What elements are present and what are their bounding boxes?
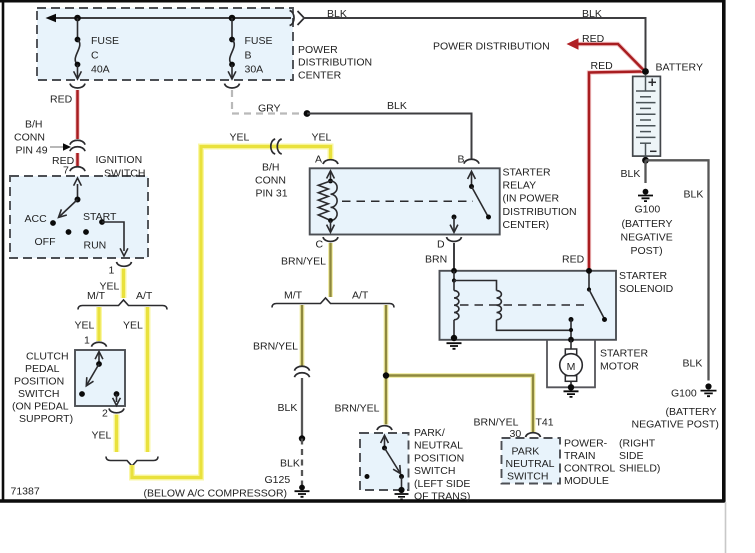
wire YEL merge to starter relay pin A [132,147,331,478]
svg-text:BRN/YEL: BRN/YEL [281,256,326,268]
svg-text:(RIGHT: (RIGHT [619,438,656,450]
svg-text:GRY: GRY [258,103,281,115]
wire YEL ignition to split [121,269,127,299]
connector relay pin D [447,237,462,241]
wire BRN relay pin D to solenoid [453,243,455,270]
svg-text:STARTER: STARTER [600,348,648,360]
svg-text:SWITCH: SWITCH [104,167,145,179]
svg-text:POST): POST) [631,245,663,257]
starter solenoid box [440,271,617,340]
svg-text:BRN: BRN [425,254,447,266]
splice brace M/T A/T (brn/yel) [272,298,394,308]
svg-text:TRAIN: TRAIN [564,450,596,462]
svg-text:BLK: BLK [278,402,298,414]
svg-text:(LEFT SIDE: (LEFT SIDE [414,478,470,490]
junction node at fuse C [74,15,81,22]
connector B/H CONN PIN 49 [50,140,85,151]
svg-text:7: 7 [63,165,69,177]
connector clutch switch pin 1 [92,342,107,346]
svg-text:DISTRIBUTION: DISTRIBUTION [298,57,372,69]
svg-text:POSITION: POSITION [14,376,64,388]
svg-text:B/H: B/H [25,119,43,131]
svg-text:OFF: OFF [35,236,56,248]
svg-text:71387: 71387 [11,486,40,498]
wire BRN/YEL A/T branch [384,305,389,425]
connector relay pin A [323,160,338,164]
connector ignition pin 7 [70,167,85,171]
svg-text:BLK: BLK [683,358,703,370]
svg-text:CONTROL: CONTROL [564,463,615,475]
starter relay box [310,168,500,234]
wire BLK battery to right side ground [646,160,709,380]
svg-text:M/T: M/T [284,290,303,302]
svg-text:CENTER: CENTER [298,69,342,81]
node battery negative [642,157,649,164]
svg-text:2: 2 [102,408,108,420]
svg-text:SWITCH: SWITCH [414,465,455,477]
svg-text:SOLENOID: SOLENOID [619,283,674,295]
svg-text:CLUTCH: CLUTCH [26,351,69,363]
ignition switch box [10,176,148,258]
junction node [299,435,305,441]
ground G100 right side [701,383,717,396]
wire BRN/YEL M/T branch [300,305,305,366]
svg-text:NEUTRAL: NEUTRAL [506,458,555,470]
svg-text:CONN: CONN [14,132,45,144]
wire BLK dashed to G125 [301,439,303,486]
svg-text:CONN: CONN [255,175,286,187]
svg-text:(BATTERY: (BATTERY [666,406,717,418]
svg-text:PARK/: PARK/ [414,427,445,439]
splice brace M/T A/T (yellow) [78,300,167,310]
svg-text:STARTER: STARTER [619,270,667,282]
wire BRN/YEL relay pin C to split [328,243,333,297]
svg-text:BRN/YEL: BRN/YEL [335,403,380,415]
junction node motor ground [568,384,574,390]
connector relay pin B [464,159,479,163]
wire YEL A/T branch [145,307,151,452]
svg-text:B: B [458,154,465,166]
svg-text:PARK: PARK [512,446,540,458]
svg-text:START: START [83,211,117,223]
svg-text:30: 30 [510,428,522,440]
park/neutral position switch box [360,433,409,490]
wire RED power distribution feed arrow [567,38,644,70]
svg-text:OF TRANS): OF TRANS) [414,491,470,503]
svg-text:YEL: YEL [230,132,250,144]
ground G125 [295,485,310,497]
svg-text:FUSE: FUSE [245,35,273,47]
svg-text:BATTERY: BATTERY [656,62,703,74]
svg-text:D: D [437,239,445,251]
wire BLK to junction [301,378,303,438]
park/neutral position switch contacts [365,435,409,499]
svg-text:A/T: A/T [352,290,369,302]
wire BLK battery negative to ground [644,160,646,183]
clutch pedal position switch box [75,350,125,406]
svg-text:A/T: A/T [136,290,153,302]
svg-text:POWER DISTRIBUTION: POWER DISTRIBUTION [433,41,550,53]
powertrain control module box [502,438,561,484]
svg-text:M: M [567,361,576,373]
starter relay switch [450,171,491,232]
node battery positive [642,68,649,75]
svg-text:IGNITION: IGNITION [96,154,143,166]
svg-text:YEL: YEL [75,320,95,332]
wire YEL clutch pin 2 [114,415,120,453]
ground G100 battery negative post [638,189,653,201]
wire GRY fuse B to junction [225,84,304,114]
svg-text:SWITCH: SWITCH [18,388,59,400]
svg-text:RELAY: RELAY [503,180,537,192]
svg-text:MODULE: MODULE [564,475,609,487]
junction node GRY/BLK [304,110,311,117]
connector B/H CONN PIN 31 [271,139,282,154]
svg-text:RED: RED [50,94,73,106]
wire RED fuse C to ignition switch [75,90,79,139]
svg-text:(ON PEDAL: (ON PEDAL [12,401,69,413]
battery body [633,76,661,156]
svg-text:SIDE: SIDE [619,450,644,462]
connector park/neutral switch pin [377,426,392,430]
svg-text:RED: RED [591,60,614,72]
power distribution center box [37,8,293,80]
svg-text:C: C [316,239,324,251]
clutch pedal position switch contacts [79,352,120,406]
starter relay coil [318,171,337,233]
svg-text:(BATTERY: (BATTERY [622,218,673,230]
connector ignition pin 1 [117,262,132,266]
connector relay pin C [323,237,338,241]
wire RED pin49 to ignition pin 7 [75,153,79,166]
svg-text:NEGATIVE POST): NEGATIVE POST) [632,419,719,431]
wire BLK PDC to battery [303,18,646,70]
svg-text:YEL: YEL [123,320,143,332]
svg-text:BLK: BLK [621,168,641,180]
svg-text:RED: RED [562,254,585,266]
svg-text:C: C [91,49,99,61]
svg-text:POWER-: POWER- [564,438,608,450]
svg-text:PIN 31: PIN 31 [256,188,288,200]
svg-text:BLK: BLK [327,8,347,20]
svg-text:BLK: BLK [280,458,300,470]
wire BLK junction to relay pin B [307,114,472,160]
svg-text:POWER: POWER [298,44,338,56]
svg-text:DISTRIBUTION: DISTRIBUTION [503,206,577,218]
ignition switch contacts and rotor [50,178,128,256]
svg-text:NEUTRAL: NEUTRAL [414,440,463,452]
svg-text:RUN: RUN [84,240,107,252]
svg-text:CENTER): CENTER) [503,219,550,231]
ground at starter motor [564,391,579,397]
svg-text:ACC: ACC [25,213,48,225]
svg-text:YEL: YEL [312,132,332,144]
svg-text:MOTOR: MOTOR [600,361,639,373]
inline connector brn/yel to blk [295,366,310,377]
starter solenoid internals [451,268,607,343]
starter motor M [560,340,583,388]
svg-text:BRN/YEL: BRN/YEL [253,341,298,353]
svg-text:G100: G100 [635,204,661,216]
svg-text:B/H: B/H [262,162,280,174]
svg-text:A: A [315,154,322,166]
svg-text:FUSE: FUSE [91,35,119,47]
battery cells [636,75,656,158]
ground at solenoid coil [447,343,462,349]
fuse C [74,18,82,79]
wire YEL M/T branch [96,307,102,341]
svg-text:30A: 30A [245,64,264,76]
junction node A/T branch [383,372,389,378]
fuse B [228,18,236,79]
svg-text:BLK: BLK [387,100,407,112]
svg-text:SUPPORT): SUPPORT) [19,413,73,425]
svg-text:BRN/YEL: BRN/YEL [474,417,519,429]
svg-text:SHIELD): SHIELD) [619,463,660,475]
svg-text:PEDAL: PEDAL [25,363,60,375]
svg-text:T41: T41 [536,417,554,429]
svg-text:1: 1 [109,265,115,277]
svg-text:1: 1 [84,335,90,347]
connector: PDC bus exit [290,11,305,26]
svg-text:G100: G100 [671,388,697,400]
svg-text:NEGATIVE: NEGATIVE [621,232,673,244]
wire BRN/YEL junction to PCM pin 30 [386,376,533,433]
battery polarity marks [649,79,657,152]
connector clutch switch pin 2 [109,408,124,412]
svg-text:40A: 40A [91,64,110,76]
motor case loop [547,340,595,388]
connector PCM pin 30 [526,433,541,437]
svg-text:BLK: BLK [582,8,602,20]
wire RED battery to solenoid [589,72,644,270]
dashed actuator link [342,200,473,202]
connector: fuse C output [70,84,85,88]
junction node at fuse B [229,15,236,22]
svg-text:(IN POWER: (IN POWER [503,193,560,205]
svg-text:SWITCH: SWITCH [507,471,548,483]
svg-text:(BELOW A/C COMPRESSOR): (BELOW A/C COMPRESSOR) [144,488,288,500]
svg-text:M/T: M/T [87,290,106,302]
merge brace yellow [106,457,158,467]
svg-text:STARTER: STARTER [503,167,551,179]
svg-text:RED: RED [582,33,605,45]
svg-text:B: B [245,49,252,61]
svg-text:BLK: BLK [684,189,704,201]
svg-text:POSITION: POSITION [414,452,464,464]
svg-text:PIN 49: PIN 49 [16,145,48,157]
svg-text:G125: G125 [265,474,291,486]
svg-text:YEL: YEL [92,430,112,442]
wire: PDC bus BLK [46,14,292,23]
